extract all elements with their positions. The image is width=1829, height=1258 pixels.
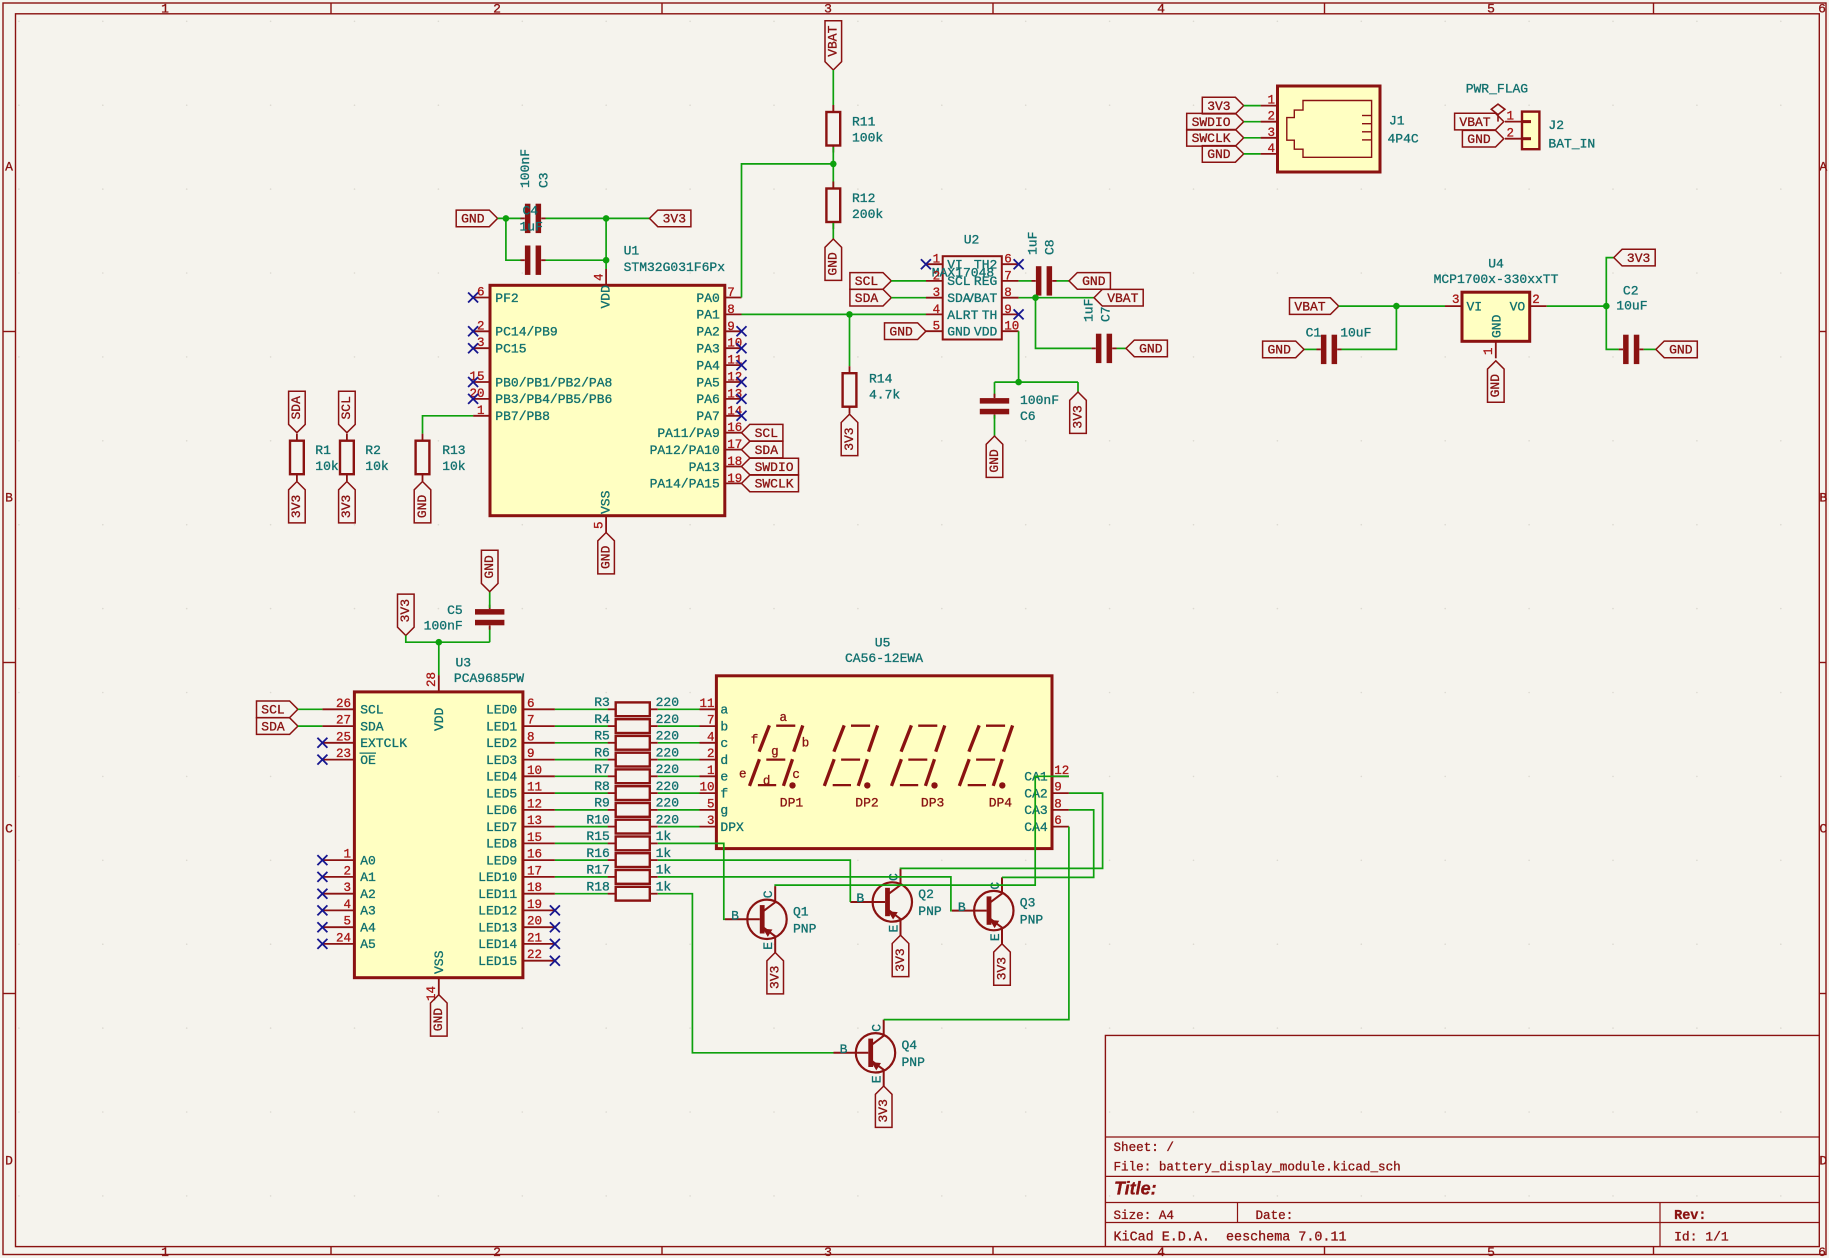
wire VO node down to C2 — [1606, 306, 1619, 349]
resistor R14 (4.7k) — [843, 366, 901, 414]
svg-text:4: 4 — [593, 273, 607, 281]
resistor R8 (220) — [594, 779, 679, 800]
svg-text:9: 9 — [727, 320, 735, 334]
resistor R7 (220) — [594, 762, 679, 783]
svg-text:21: 21 — [527, 931, 542, 945]
power/global label VBAT at U2 — [1094, 289, 1143, 306]
svg-text:22: 22 — [527, 948, 542, 962]
svg-text:VBAT: VBAT — [1294, 299, 1325, 314]
svg-text:R7: R7 — [594, 762, 610, 777]
svg-text:c: c — [720, 736, 728, 751]
power/global label GND at C3 — [456, 210, 497, 227]
power/global label GND below C6 — [986, 436, 1003, 477]
wire R18 to Q4 base — [658, 894, 834, 1053]
svg-text:11: 11 — [527, 781, 542, 795]
junction VDD node at C3 — [603, 215, 610, 222]
wire PA1 to U2 ALRT — [742, 313, 927, 315]
svg-text:5: 5 — [933, 320, 941, 334]
junction U2 VDD / C6 node — [1015, 379, 1022, 386]
svg-text:100nF: 100nF — [1020, 393, 1059, 408]
svg-text:A3: A3 — [360, 904, 376, 919]
svg-text:U5: U5 — [875, 636, 891, 651]
wire U3 LED9 to R16 — [555, 859, 608, 861]
wire U3 LED4 to R7 — [555, 775, 608, 777]
svg-text:C: C — [5, 821, 13, 836]
wire U2 VBAT to VBAT label — [1019, 297, 1094, 299]
connector J1 4P4C — [1261, 86, 1419, 172]
wire U4 VO to 3V3 node — [1547, 305, 1607, 307]
power/global label GND at C2 — [1656, 341, 1697, 358]
wire VBAT node down to C7 — [1036, 298, 1092, 349]
svg-text:7: 7 — [1004, 269, 1012, 283]
wire VDD node down to U1 VDD — [605, 218, 607, 269]
U5 DP labels — [780, 796, 1013, 811]
svg-text:SCL: SCL — [360, 703, 383, 718]
svg-text:1: 1 — [707, 764, 715, 778]
connector J2 BAT_IN — [1505, 110, 1595, 152]
svg-text:C6: C6 — [1020, 409, 1036, 424]
svg-text:GND: GND — [987, 449, 1002, 473]
wire U3 VDD pin up — [438, 642, 440, 675]
svg-text:2: 2 — [933, 269, 941, 283]
svg-text:PC14/PB9: PC14/PB9 — [495, 325, 557, 340]
svg-text:2: 2 — [1532, 293, 1540, 307]
svg-text:18: 18 — [727, 455, 742, 469]
svg-text:220: 220 — [656, 779, 679, 794]
wire R11 to R12 — [832, 147, 834, 188]
power/global label SDA at U1 — [742, 441, 783, 458]
svg-text:6: 6 — [527, 697, 535, 711]
wire VI node down to C1 — [1342, 306, 1397, 349]
power/global label GND below U4 — [1488, 361, 1505, 402]
wire R9 to display — [658, 809, 700, 811]
svg-text:VSS: VSS — [599, 490, 614, 514]
wire PB7 to R13 — [423, 416, 474, 434]
power/global label GND at C8 — [1069, 273, 1110, 290]
svg-text:Q3: Q3 — [1020, 896, 1036, 911]
svg-text:10: 10 — [1004, 320, 1019, 334]
svg-text:3: 3 — [1452, 293, 1460, 307]
resistor R4 (220) — [594, 712, 679, 733]
power/global label 3V3 at C3 — [650, 210, 691, 227]
svg-text:LED10: LED10 — [478, 870, 517, 885]
svg-text:220: 220 — [656, 729, 679, 744]
power/global label GND below R13 — [414, 482, 431, 523]
svg-text:C4: C4 — [523, 204, 539, 219]
svg-text:U1: U1 — [624, 244, 640, 259]
wire R17 to Q3 base — [658, 877, 952, 911]
wire R16 to Q2 base — [658, 860, 850, 902]
wire node down to C6 — [994, 382, 996, 397]
svg-text:Date:: Date: — [1256, 1209, 1294, 1223]
capacitor C8 ref/value (vertical) — [1026, 232, 1058, 255]
junction divider tap — [830, 161, 837, 168]
svg-text:VI: VI — [1467, 299, 1483, 314]
wire 3V3 down to VDD node — [406, 636, 490, 643]
wire 3V3 to J1 pin1 — [1244, 105, 1261, 107]
svg-text:Q2: Q2 — [918, 887, 934, 902]
junction VBAT node — [1032, 294, 1039, 301]
svg-text:9: 9 — [1054, 781, 1062, 795]
svg-text:GND: GND — [431, 1008, 446, 1032]
svg-text:e: e — [720, 770, 728, 785]
svg-text:PA1: PA1 — [696, 308, 720, 323]
svg-text:E: E — [761, 942, 776, 950]
svg-text:6: 6 — [1004, 253, 1012, 267]
power/global label SWCLK at J1 — [1187, 130, 1244, 147]
capacitor C5 ref/value — [424, 603, 463, 634]
svg-text:8: 8 — [527, 730, 535, 744]
svg-text:EXTCLK: EXTCLK — [360, 736, 407, 751]
svg-text:J2: J2 — [1548, 118, 1564, 133]
svg-text:GND: GND — [889, 325, 913, 340]
svg-text:220: 220 — [656, 762, 679, 777]
capacitor C2 — [1619, 335, 1644, 364]
wire R15 to Q1 base — [658, 843, 725, 919]
power/global label 3V3 at Q2 emitter — [892, 935, 909, 976]
svg-text:10: 10 — [527, 764, 542, 778]
svg-text:PNP: PNP — [793, 921, 817, 936]
svg-text:DP1: DP1 — [780, 796, 804, 811]
svg-text:E: E — [988, 933, 1003, 941]
svg-text:R17: R17 — [586, 863, 609, 878]
wire GND to J1 pin4 — [1244, 153, 1261, 155]
svg-text:DP2: DP2 — [855, 796, 878, 811]
svg-text:VDD: VDD — [974, 325, 998, 340]
power/global label SWCLK at U1 — [742, 475, 799, 492]
svg-text:200k: 200k — [852, 207, 883, 222]
svg-text:3V3: 3V3 — [768, 966, 783, 989]
svg-text:7: 7 — [527, 714, 535, 728]
svg-text:GND: GND — [1489, 314, 1504, 338]
wire R12 to GND — [832, 223, 834, 239]
svg-text:3V3: 3V3 — [842, 427, 857, 450]
svg-text:SDA: SDA — [289, 396, 304, 420]
svg-text:14: 14 — [425, 986, 439, 1001]
svg-text:PA4: PA4 — [696, 358, 720, 373]
svg-text:3: 3 — [477, 336, 485, 350]
junction U3 VDD node — [436, 639, 443, 646]
svg-text:Title:: Title: — [1114, 1179, 1157, 1199]
svg-text:10uF: 10uF — [1616, 299, 1647, 314]
svg-text:DPX: DPX — [720, 820, 744, 835]
wire R4 to display — [658, 725, 700, 727]
svg-text:PA5: PA5 — [696, 375, 719, 390]
svg-text:GND: GND — [415, 495, 430, 519]
wire C6 node horizontal — [995, 381, 1079, 383]
wire VBAT to U4 VI — [1339, 305, 1445, 307]
svg-text:R12: R12 — [852, 191, 875, 206]
svg-text:B: B — [856, 891, 864, 906]
svg-text:4.7k: 4.7k — [869, 388, 900, 403]
svg-text:1: 1 — [1506, 110, 1514, 124]
svg-text:KiCad E.D.A. eeschema 7.0.11: KiCad E.D.A. eeschema 7.0.11 — [1114, 1231, 1347, 1246]
wire U3 LED5 to R8 — [555, 792, 608, 794]
svg-text:220: 220 — [656, 712, 679, 727]
svg-text:1uF: 1uF — [1082, 299, 1097, 322]
power/global label 3V3 below R1 — [289, 482, 306, 523]
resistor R1 (10k) — [290, 434, 339, 482]
resistor R2 (10k) — [340, 434, 389, 482]
svg-text:LED15: LED15 — [478, 954, 517, 969]
svg-text:2: 2 — [493, 1245, 501, 1258]
svg-text:3V3: 3V3 — [1627, 251, 1650, 266]
power/global label GND below U3 VSS — [431, 995, 448, 1036]
wire U2 VDD down to C6 node — [1018, 331, 1020, 382]
svg-text:R13: R13 — [442, 443, 465, 458]
svg-text:23: 23 — [336, 747, 351, 761]
svg-text:1k: 1k — [656, 829, 672, 844]
power/global label VBAT at J2 — [1455, 113, 1504, 130]
power/global label 3V3 at J1 — [1202, 97, 1243, 114]
svg-text:C5: C5 — [447, 603, 463, 618]
svg-text:1: 1 — [161, 1245, 169, 1258]
wire U5 CA3 to Q3 collector — [1002, 810, 1094, 878]
wire R6 to display — [658, 759, 700, 761]
svg-text:4P4C: 4P4C — [1388, 132, 1419, 147]
svg-text:6: 6 — [477, 286, 485, 300]
wire U3 LED6 to R9 — [555, 809, 608, 811]
power/global label 3V3 at U4 — [1614, 249, 1655, 266]
resistor R10 (220) — [586, 812, 679, 833]
svg-text:SDA: SDA — [855, 291, 879, 306]
power/global label GND above C5 — [481, 550, 498, 591]
resistor R11 (100k) — [826, 105, 883, 153]
svg-text:4: 4 — [1267, 142, 1275, 156]
svg-text:3V3: 3V3 — [994, 957, 1009, 980]
svg-text:C: C — [761, 890, 776, 898]
svg-text:3V3: 3V3 — [1207, 99, 1230, 114]
power/global label 3V3 below C6 node — [1070, 392, 1087, 433]
svg-text:LED5: LED5 — [486, 786, 517, 801]
svg-text:5: 5 — [593, 521, 607, 529]
capacitor C5 — [475, 605, 504, 630]
svg-text:PNP: PNP — [1020, 913, 1044, 928]
wire C5 to GND — [489, 592, 491, 608]
svg-text:DP3: DP3 — [921, 796, 944, 811]
svg-text:LED7: LED7 — [486, 820, 517, 835]
svg-text:C8: C8 — [1043, 239, 1058, 255]
svg-text:GND: GND — [1207, 147, 1231, 162]
svg-text:GND: GND — [1139, 342, 1163, 357]
svg-text:R3: R3 — [594, 695, 610, 710]
svg-text:6: 6 — [1054, 814, 1062, 828]
junction VI node — [1393, 303, 1400, 310]
no-connect marks on U2 pins 1,6,9 — [921, 259, 1024, 319]
svg-text:6: 6 — [1818, 1245, 1826, 1258]
wire U3 LED1 to R4 — [555, 725, 608, 727]
transistor Q3 (PNP) — [952, 877, 1044, 943]
svg-text:R10: R10 — [586, 812, 609, 827]
svg-text:2: 2 — [707, 747, 715, 761]
svg-text:B: B — [731, 909, 739, 924]
capacitor C1 — [1317, 335, 1342, 364]
wire C2 to GND — [1644, 348, 1656, 350]
svg-text:LED8: LED8 — [486, 837, 517, 852]
svg-text:R5: R5 — [594, 729, 610, 744]
svg-text:Size: A4: Size: A4 — [1114, 1209, 1174, 1223]
power/global label SDA at U3 — [257, 718, 298, 735]
IC U2 MAX17048 fuel gauge — [926, 233, 1019, 340]
power flag PWR_FLAG on VBAT — [1466, 82, 1528, 122]
svg-text:3: 3 — [824, 1245, 832, 1258]
svg-text:4: 4 — [1157, 1, 1165, 16]
svg-text:f: f — [720, 786, 728, 801]
svg-text:19: 19 — [727, 472, 742, 486]
svg-text:5: 5 — [707, 797, 715, 811]
capacitor C1 ref/value — [1306, 326, 1372, 341]
svg-text:DP4: DP4 — [989, 796, 1013, 811]
capacitor C7 — [1092, 334, 1117, 363]
svg-text:VSS: VSS — [432, 950, 447, 974]
svg-text:20: 20 — [527, 915, 542, 929]
wire U3 LED0 to R3 — [555, 708, 608, 710]
svg-text:9: 9 — [1004, 303, 1012, 317]
svg-text:2: 2 — [343, 864, 351, 878]
svg-text:SCL: SCL — [339, 396, 354, 419]
power/global label 3V3 at Q3 emitter — [994, 944, 1011, 985]
wire R10 to display — [658, 826, 700, 828]
resistor R9 (220) — [594, 796, 679, 817]
svg-text:J1: J1 — [1389, 114, 1405, 129]
svg-text:24: 24 — [336, 931, 351, 945]
svg-text:26: 26 — [336, 697, 351, 711]
svg-text:GND: GND — [599, 545, 614, 569]
svg-text:C3: C3 — [537, 172, 552, 188]
power/global label 3V3 at Q1 emitter — [767, 953, 784, 994]
svg-text:PA2: PA2 — [696, 325, 719, 340]
svg-text:PB0/PB1/PB2/PA8: PB0/PB1/PB2/PA8 — [495, 375, 612, 390]
svg-text:A2: A2 — [360, 887, 376, 902]
svg-text:B: B — [840, 1042, 848, 1057]
power/global label SCL at U3 — [257, 701, 298, 718]
svg-text:TH: TH — [982, 308, 998, 323]
svg-text:3V3: 3V3 — [398, 599, 413, 622]
svg-text:U3: U3 — [456, 656, 472, 671]
svg-text:100nF: 100nF — [424, 619, 463, 634]
svg-text:8: 8 — [727, 303, 735, 317]
power/global label SDA above R1 — [289, 391, 306, 432]
svg-text:1: 1 — [477, 404, 485, 418]
svg-text:LED12: LED12 — [478, 904, 517, 919]
svg-text:SWDIO: SWDIO — [1192, 115, 1231, 130]
wire SDA to U2 — [891, 297, 926, 299]
svg-text:GND: GND — [826, 252, 841, 276]
svg-text:220: 220 — [656, 796, 679, 811]
power/global label GND at J1 — [1202, 146, 1243, 163]
svg-text:PA6: PA6 — [696, 392, 719, 407]
wire C1 to GND — [1304, 348, 1317, 350]
svg-text:D: D — [5, 1153, 13, 1168]
svg-text:BAT_IN: BAT_IN — [1548, 137, 1595, 152]
capacitor C6 ref/value — [1020, 393, 1059, 424]
svg-text:10k: 10k — [315, 459, 339, 474]
transistor Q2 (PNP) — [850, 869, 942, 935]
svg-text:A4: A4 — [360, 921, 376, 936]
power/global label SWDIO at U1 — [742, 458, 799, 475]
power/global label GND at C7 — [1126, 340, 1167, 357]
svg-text:GND: GND — [1082, 274, 1106, 289]
svg-text:ALRT: ALRT — [947, 308, 978, 323]
svg-text:Q1: Q1 — [793, 904, 809, 919]
svg-text:R15: R15 — [586, 829, 609, 844]
svg-text:A: A — [1819, 159, 1827, 174]
svg-text:3: 3 — [933, 286, 941, 300]
wire U3 LED11 to R18 — [555, 893, 608, 895]
svg-text:VBAT: VBAT — [1107, 291, 1138, 306]
svg-text:LED4: LED4 — [486, 770, 517, 785]
svg-text:GND: GND — [1488, 374, 1503, 398]
svg-text:16: 16 — [727, 421, 742, 435]
svg-text:a: a — [720, 703, 728, 718]
wire VO node up to 3V3 — [1606, 258, 1614, 307]
capacitor C4 — [521, 246, 546, 275]
svg-text:A: A — [5, 159, 13, 174]
resistor R16 (1k) — [586, 846, 671, 867]
IC U3 PCA9685PW LED driver — [322, 656, 555, 1002]
svg-text:LED0: LED0 — [486, 703, 517, 718]
power/global label 3V3 below R14 — [841, 414, 858, 455]
svg-text:3: 3 — [824, 1, 832, 16]
svg-text:3V3: 3V3 — [663, 212, 686, 227]
svg-text:PF2: PF2 — [495, 291, 518, 306]
power/global label SWDIO at J1 — [1187, 113, 1244, 130]
svg-text:PA0: PA0 — [696, 291, 719, 306]
svg-text:VDD: VDD — [432, 707, 447, 731]
svg-text:220: 220 — [656, 812, 679, 827]
wire R3 to display — [658, 708, 700, 710]
svg-text:LED9: LED9 — [486, 853, 517, 868]
wire U3 LED3 to R6 — [555, 759, 608, 761]
svg-text:18: 18 — [527, 881, 542, 895]
svg-text:CA56-12EWA: CA56-12EWA — [845, 651, 923, 666]
svg-text:PNP: PNP — [918, 904, 942, 919]
svg-text:g: g — [720, 803, 728, 818]
svg-text:Q4: Q4 — [902, 1038, 918, 1053]
svg-text:PC15: PC15 — [495, 342, 526, 357]
svg-text:5: 5 — [343, 915, 351, 929]
svg-text:B: B — [958, 900, 966, 915]
svg-text:SCL: SCL — [947, 274, 970, 289]
svg-text:d: d — [763, 775, 771, 789]
wire R8 to display — [658, 792, 700, 794]
power/global label VBAT at divider top — [825, 21, 842, 70]
capacitor C7 ref/value (vertical) — [1082, 299, 1114, 322]
wire VBAT to R11 — [832, 70, 834, 112]
resistor R17 (1k) — [586, 863, 671, 884]
svg-text:TH2: TH2 — [974, 258, 997, 273]
svg-text:12: 12 — [527, 797, 542, 811]
capacitor C3 — [521, 204, 546, 233]
resistor R12 (200k) — [826, 182, 883, 230]
svg-text:PA3: PA3 — [696, 342, 719, 357]
wire SWCLK to J1 pin3 — [1244, 137, 1261, 139]
capacitor C3 ref/value (vertical) — [518, 149, 552, 188]
svg-text:PCA9685PW: PCA9685PW — [454, 671, 524, 686]
svg-text:3: 3 — [343, 881, 351, 895]
svg-text:E: E — [870, 1075, 885, 1083]
svg-text:100k: 100k — [852, 131, 883, 146]
svg-text:d: d — [720, 753, 728, 768]
svg-text:PNP: PNP — [902, 1055, 926, 1070]
svg-text:GND: GND — [1467, 132, 1491, 147]
power/global label GND at J2 — [1462, 130, 1503, 147]
svg-text:2: 2 — [1506, 127, 1514, 141]
svg-text:220: 220 — [656, 695, 679, 710]
junction VO node — [1603, 303, 1610, 310]
svg-text:REG: REG — [974, 274, 997, 289]
svg-text:10: 10 — [699, 781, 714, 795]
